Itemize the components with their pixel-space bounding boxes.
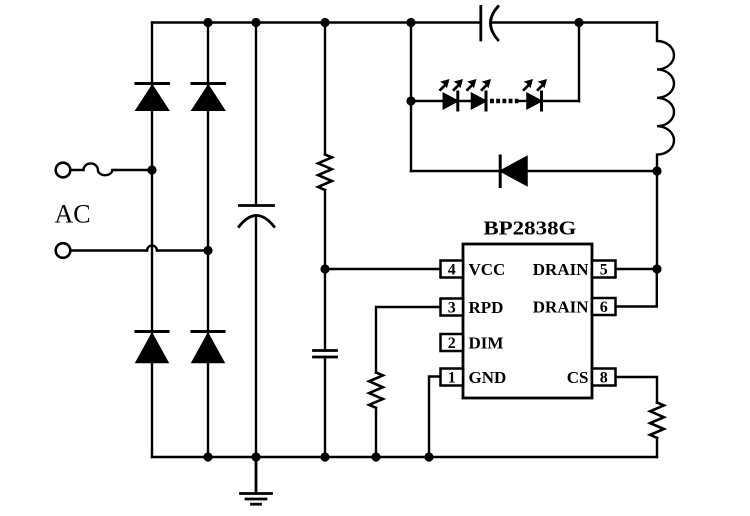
node bottom bus / bridge right xyxy=(203,452,212,461)
wire freewheel row left xyxy=(411,170,500,172)
svg-text:2: 2 xyxy=(448,335,456,352)
capacitor C3 plates xyxy=(314,351,337,358)
resistor R1 xyxy=(318,155,332,191)
node top bus / LED branch xyxy=(406,18,415,27)
pin 1 box xyxy=(441,369,464,386)
wire dashed LED ellipsis xyxy=(490,99,518,104)
wire LED branch left vertical xyxy=(410,23,412,172)
diode D5 freewheel xyxy=(500,156,527,187)
wire VCC column lower xyxy=(324,357,326,457)
wire CS pin8 xyxy=(616,377,657,403)
wire R2 to bottom bus xyxy=(375,408,377,457)
svg-text:DRAIN: DRAIN xyxy=(533,260,589,279)
wire LED branch right vertical xyxy=(578,23,580,102)
svg-text:8: 8 xyxy=(600,370,608,387)
svg-text:6: 6 xyxy=(600,299,608,316)
svg-text:AC: AC xyxy=(55,200,91,229)
wire to LED3 xyxy=(518,100,527,102)
node drain xyxy=(652,264,661,273)
diode D3 (bridge bottom-left) xyxy=(136,332,168,363)
svg-text:CS: CS xyxy=(567,368,589,387)
wire freewheel row right xyxy=(527,170,657,172)
capacitor C1 top plate xyxy=(240,204,274,207)
wire VCC to pin4 xyxy=(325,268,440,270)
wire top bus right of capacitor xyxy=(492,21,658,23)
node top bus / electrolytic xyxy=(251,18,260,27)
wire electrolytic column upper xyxy=(255,23,257,206)
wire VCC column middle xyxy=(324,190,326,351)
AC terminal top xyxy=(56,163,71,178)
svg-text:1: 1 xyxy=(448,370,456,387)
pin 3 box xyxy=(441,299,464,316)
wire LED row start xyxy=(411,100,443,102)
diode D1 (bridge top-left) xyxy=(136,84,169,111)
wire bridge left column xyxy=(151,23,153,458)
wire top bus left of capacitor xyxy=(152,21,480,23)
svg-text:VCC: VCC xyxy=(469,260,506,279)
wire drain pin6 loop xyxy=(616,269,657,307)
LED arrows LED1 xyxy=(440,79,463,90)
pin 8 box xyxy=(592,369,616,386)
svg-text:GND: GND xyxy=(469,368,507,387)
wire bottom bus xyxy=(152,456,657,458)
ground xyxy=(241,457,272,504)
wire bridge right column xyxy=(207,23,209,458)
svg-text:3: 3 xyxy=(448,300,456,317)
wire inductor to drain node xyxy=(656,171,658,269)
resistor R3 xyxy=(650,403,664,438)
capacitor C2 curved plate xyxy=(491,7,499,41)
svg-text:5: 5 xyxy=(600,262,608,279)
capacitor C2 (top, straight plate) xyxy=(479,7,482,41)
wire R3 to bottom bus xyxy=(656,438,658,457)
svg-text:4: 4 xyxy=(448,262,456,279)
node bottom bus / GND pin xyxy=(424,452,433,461)
op-amp U1 BP2838G body xyxy=(463,244,592,398)
wire drain pin5 xyxy=(616,268,657,270)
resistor R2 xyxy=(369,373,383,408)
wire VCC column upper xyxy=(324,23,326,155)
node dots xyxy=(147,18,661,462)
capacitor C1 curved plate xyxy=(239,216,274,227)
svg-text:DIM: DIM xyxy=(469,334,504,353)
wire electrolytic column lower xyxy=(255,216,257,458)
fuse F1 xyxy=(71,163,116,175)
inductor L1 xyxy=(657,23,674,172)
LED LED3 xyxy=(527,92,542,110)
wire fuse to bridge xyxy=(115,169,152,171)
wire GND pin1 xyxy=(429,377,440,458)
node bottom bus / VCC column xyxy=(320,452,329,461)
pin 2 box xyxy=(441,334,464,351)
pin 6 box xyxy=(592,298,616,315)
wire RPD pin3 xyxy=(376,307,440,373)
node AC bottom junction xyxy=(203,246,212,255)
wire LED row end xyxy=(542,100,580,102)
node AC top junction xyxy=(147,165,156,174)
wire hop to bridge right column xyxy=(157,249,208,251)
pin 4 box xyxy=(441,261,464,278)
node freewheel / inductor xyxy=(652,166,661,175)
node VCC junction xyxy=(320,264,329,273)
svg-text:RPD: RPD xyxy=(469,298,504,317)
diode D2 (bridge top-right) xyxy=(192,84,225,111)
svg-text:DRAIN: DRAIN xyxy=(533,298,589,317)
LED arrows LED3 xyxy=(524,79,547,90)
wire hop over left column xyxy=(147,246,157,251)
node bottom bus / R2 xyxy=(371,452,380,461)
node top bus / VCC column xyxy=(320,18,329,27)
LED arrows LED2 xyxy=(467,79,491,90)
LED LED2 xyxy=(472,92,487,110)
svg-text:BP2838G: BP2838G xyxy=(483,218,576,240)
node top bus / LED return xyxy=(574,18,583,27)
AC terminal bottom xyxy=(56,243,71,258)
node bottom bus / ground xyxy=(251,452,260,461)
pin 5 box xyxy=(592,261,616,278)
LED LED1 xyxy=(443,92,458,110)
node top bus / bridge right xyxy=(203,18,212,27)
diode D4 (bridge bottom-right) xyxy=(192,332,224,363)
wire AC bottom to hop xyxy=(71,249,148,251)
node LED row left xyxy=(406,96,415,105)
wire LED1 to LED2 xyxy=(458,100,472,102)
